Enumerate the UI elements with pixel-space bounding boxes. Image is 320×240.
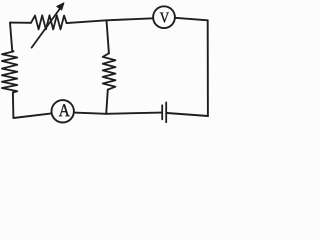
battery cell long plate [165,102,167,122]
wire right edge [207,20,209,116]
voltmeter label V [160,13,169,23]
rheostat R1 [31,15,67,29]
wire middle branch upper [107,20,109,53]
wire top-left segment [10,22,31,24]
battery cell short plate [161,105,163,119]
wire middle branch lower [106,90,108,114]
ammeter U2 circle [52,100,74,122]
rheostat arrow shaft [32,9,60,48]
wire junction to ammeter [74,113,106,114]
voltmeter U1 circle [153,6,175,28]
wire voltmeter to top-right corner [175,18,208,21]
wire left edge upper [10,23,12,51]
wire ammeter to bottom-left corner [13,113,51,118]
rheostat arrowhead [57,3,64,10]
resistor R2 (left branch) [2,50,17,92]
wire junction to voltmeter [107,18,154,20]
wire left edge lower [12,93,15,119]
wire rheostat to middle-branch junction [67,20,107,23]
wire battery to middle-branch bottom junction [106,113,161,114]
resistor R3 (middle branch) [103,53,116,89]
wire bottom-right corner to battery [167,113,208,116]
ammeter label A [59,104,70,116]
